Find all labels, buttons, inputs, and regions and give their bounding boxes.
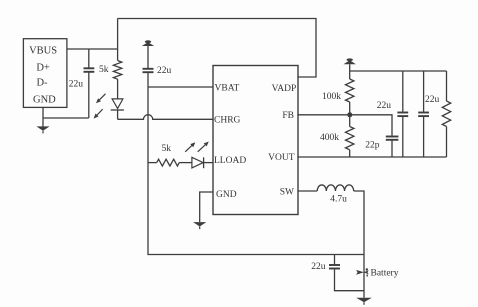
svg-text:5k: 5k xyxy=(99,65,109,75)
svg-text:VOUT: VOUT xyxy=(268,153,295,163)
svg-text:4.7u: 4.7u xyxy=(330,195,347,205)
svg-text:22u: 22u xyxy=(69,80,84,90)
svg-text:22u: 22u xyxy=(425,95,440,105)
svg-text:LLOAD: LLOAD xyxy=(214,156,246,166)
svg-text:CHRG: CHRG xyxy=(214,115,241,125)
svg-text:D+: D+ xyxy=(36,63,50,74)
svg-text:VADP: VADP xyxy=(272,84,297,94)
svg-text:22u: 22u xyxy=(157,66,172,76)
svg-text:Battery: Battery xyxy=(371,268,399,278)
svg-text:VBAT: VBAT xyxy=(215,84,240,94)
svg-text:VBUS: VBUS xyxy=(29,46,57,57)
svg-text:400k: 400k xyxy=(320,133,339,143)
svg-text:5k: 5k xyxy=(162,144,172,154)
svg-text:22u: 22u xyxy=(377,101,392,111)
svg-text:D-: D- xyxy=(36,78,48,89)
svg-text:GND: GND xyxy=(33,94,56,105)
svg-text:22u: 22u xyxy=(311,262,326,272)
svg-text:GND: GND xyxy=(216,190,237,200)
svg-text:100k: 100k xyxy=(322,92,341,102)
svg-text:FB: FB xyxy=(282,111,294,121)
svg-text:SW: SW xyxy=(280,187,294,197)
svg-text:22p: 22p xyxy=(365,140,380,150)
